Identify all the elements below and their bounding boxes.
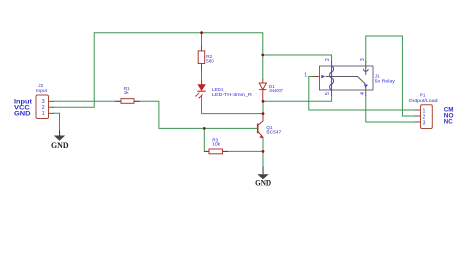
svg-text:1N4007: 1N4007 — [269, 88, 283, 93]
svg-text:1: 1 — [304, 72, 307, 78]
svg-text:10k: 10k — [212, 141, 221, 146]
svg-text:P1: P1 — [420, 93, 426, 98]
svg-text:Output/Load: Output/Load — [409, 98, 438, 103]
svg-text:5: 5 — [325, 92, 331, 95]
svg-text:GND: GND — [51, 141, 69, 150]
svg-text:560: 560 — [206, 59, 214, 64]
svg-text:BC547: BC547 — [266, 129, 281, 134]
svg-text:NC: NC — [444, 118, 453, 125]
svg-text:2: 2 — [325, 58, 331, 61]
svg-text:3: 3 — [360, 58, 366, 61]
svg-text:1k: 1k — [124, 90, 130, 95]
svg-text:3: 3 — [422, 120, 425, 126]
svg-text:4: 4 — [360, 92, 366, 95]
svg-text:5v Relay: 5v Relay — [375, 79, 396, 84]
svg-text:Input: Input — [36, 88, 48, 93]
svg-text:LED-TH-3mm_R: LED-TH-3mm_R — [212, 92, 253, 97]
svg-text:GND: GND — [255, 179, 271, 188]
svg-text:1: 1 — [42, 111, 45, 117]
svg-text:GND: GND — [14, 111, 31, 118]
